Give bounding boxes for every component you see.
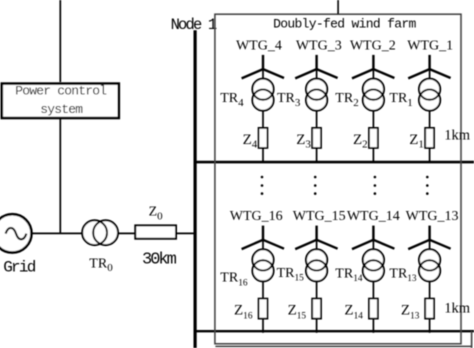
wire: transformer to impedance Z13 [429, 281, 431, 298]
wind turbine WTG_2 [352, 55, 394, 80]
impedance Z4 box [259, 128, 268, 148]
wind turbine WTG_13 [408, 226, 450, 251]
wind turbine WTG_1 [408, 55, 450, 80]
continuation dots column 3 [374, 176, 377, 195]
wire: top feeder into power control system [59, 0, 61, 82]
wire: transformer to impedance Z4 [262, 111, 264, 128]
wire: transformer to impedance Z14 [372, 281, 374, 298]
transformer TR1 [419, 79, 440, 111]
transformer TR0 (two overlapping circles) [82, 220, 118, 245]
sine symbol inside grid source [6, 228, 27, 239]
second wind farm box (clipped at bottom) [215, 345, 471, 347]
svg-text:WTG_15: WTG_15 [293, 209, 346, 224]
bus: upper feeder bus (1km spaced) [194, 161, 474, 164]
svg-text:WTG_3: WTG_3 [296, 38, 342, 53]
wire: transformer to impedance Z3 [316, 111, 318, 128]
power control system box [2, 84, 119, 118]
wire: transformer to impedance Z15 [316, 281, 318, 298]
impedance Z1 box [425, 128, 434, 148]
source: Grid AC source circle [0, 214, 32, 252]
transformer TR13 [419, 249, 440, 281]
wind farm boundary frame [215, 14, 461, 344]
wire: impedance Z15 to feeder bus [316, 319, 318, 333]
svg-text:Node 1: Node 1 [171, 16, 217, 34]
transformer TR16 [252, 249, 273, 281]
wire: top tap from frame to image top [337, 0, 339, 14]
continuation dots column 2 [314, 176, 317, 195]
wind turbine WTG_3 [295, 55, 337, 80]
wind turbine WTG_16 [242, 226, 284, 251]
impedance Z3 box [312, 128, 321, 148]
wire: impedance Z1 to feeder bus [429, 148, 431, 162]
wire: impedance Z13 to feeder bus [429, 319, 431, 333]
svg-text:30km: 30km [142, 250, 177, 269]
svg-text:WTG_4: WTG_4 [236, 38, 282, 53]
continuation dots column 4 [426, 176, 429, 195]
svg-text:1km: 1km [444, 128, 471, 144]
wire: transformer to impedance Z16 [262, 281, 264, 298]
svg-text:Grid: Grid [3, 259, 36, 277]
wire: impedance Z2 to feeder bus [372, 148, 374, 162]
svg-text:WTG_14: WTG_14 [347, 209, 400, 224]
wire: impedance Z4 to feeder bus [262, 148, 264, 162]
wire: impedance Z3 to feeder bus [316, 148, 318, 162]
transformer TR14 [363, 249, 384, 281]
svg-text:WTG_13: WTG_13 [406, 209, 459, 224]
transformer TR15 [306, 249, 327, 281]
wire: impedance Z14 to feeder bus [372, 319, 374, 333]
bus: Node 1 vertical bus [194, 30, 197, 348]
wire: tap down to second box [471, 331, 473, 348]
wire: transformer to impedance Z1 [429, 111, 431, 128]
wire: transformer to impedance Z2 [372, 111, 374, 128]
svg-text:WTG_2: WTG_2 [350, 38, 396, 53]
impedance Z14 box [369, 299, 378, 319]
impedance Z13 box [425, 299, 434, 319]
svg-text:WTG_1: WTG_1 [407, 38, 453, 53]
wire: grid horizontal line to Node 1 bus [28, 232, 195, 234]
transformer TR4 [252, 79, 273, 111]
wind turbine WTG_4 [242, 55, 284, 80]
wire: power control system down to grid line [59, 119, 61, 233]
svg-text:1km: 1km [444, 301, 471, 317]
continuation dots column 1 [261, 176, 264, 195]
wind turbine WTG_15 [295, 226, 337, 251]
impedance Z0 box [135, 225, 176, 238]
bus: lower feeder bus [194, 330, 474, 332]
impedance Z16 box [259, 299, 268, 319]
transformer TR2 [363, 79, 384, 111]
svg-text:WTG_16: WTG_16 [230, 209, 283, 224]
svg-text:system: system [40, 102, 83, 117]
svg-text:Power control: Power control [15, 83, 107, 98]
impedance Z15 box [312, 299, 321, 319]
transformer TR3 [306, 79, 327, 111]
wind turbine WTG_14 [352, 226, 394, 251]
svg-text:Doubly-fed wind farm: Doubly-fed wind farm [273, 17, 416, 32]
impedance Z2 box [369, 128, 378, 148]
wire: impedance Z16 to feeder bus [262, 319, 264, 333]
